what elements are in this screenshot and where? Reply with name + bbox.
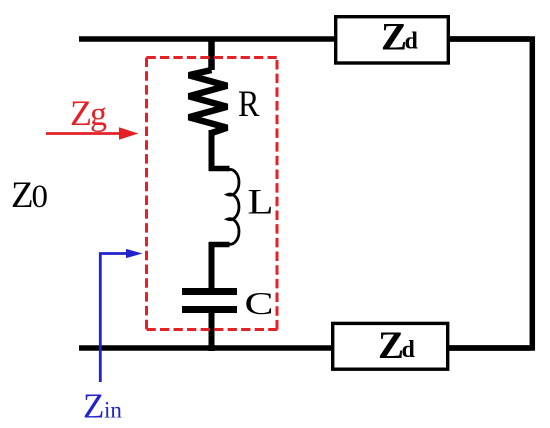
svg-text:Z: Z <box>381 16 407 59</box>
svg-text:Z: Z <box>70 93 92 133</box>
svg-text:d: d <box>402 337 416 363</box>
svg-text:R: R <box>238 84 260 125</box>
svg-text:Z: Z <box>83 387 104 426</box>
svg-text:L: L <box>248 182 274 222</box>
svg-text:Z: Z <box>11 175 34 216</box>
svg-text:Z: Z <box>378 324 404 367</box>
svg-text:in: in <box>104 398 122 423</box>
svg-text:0: 0 <box>32 179 49 215</box>
svg-text:g: g <box>90 96 107 133</box>
svg-text:C: C <box>245 285 274 321</box>
svg-text:d: d <box>405 29 419 55</box>
